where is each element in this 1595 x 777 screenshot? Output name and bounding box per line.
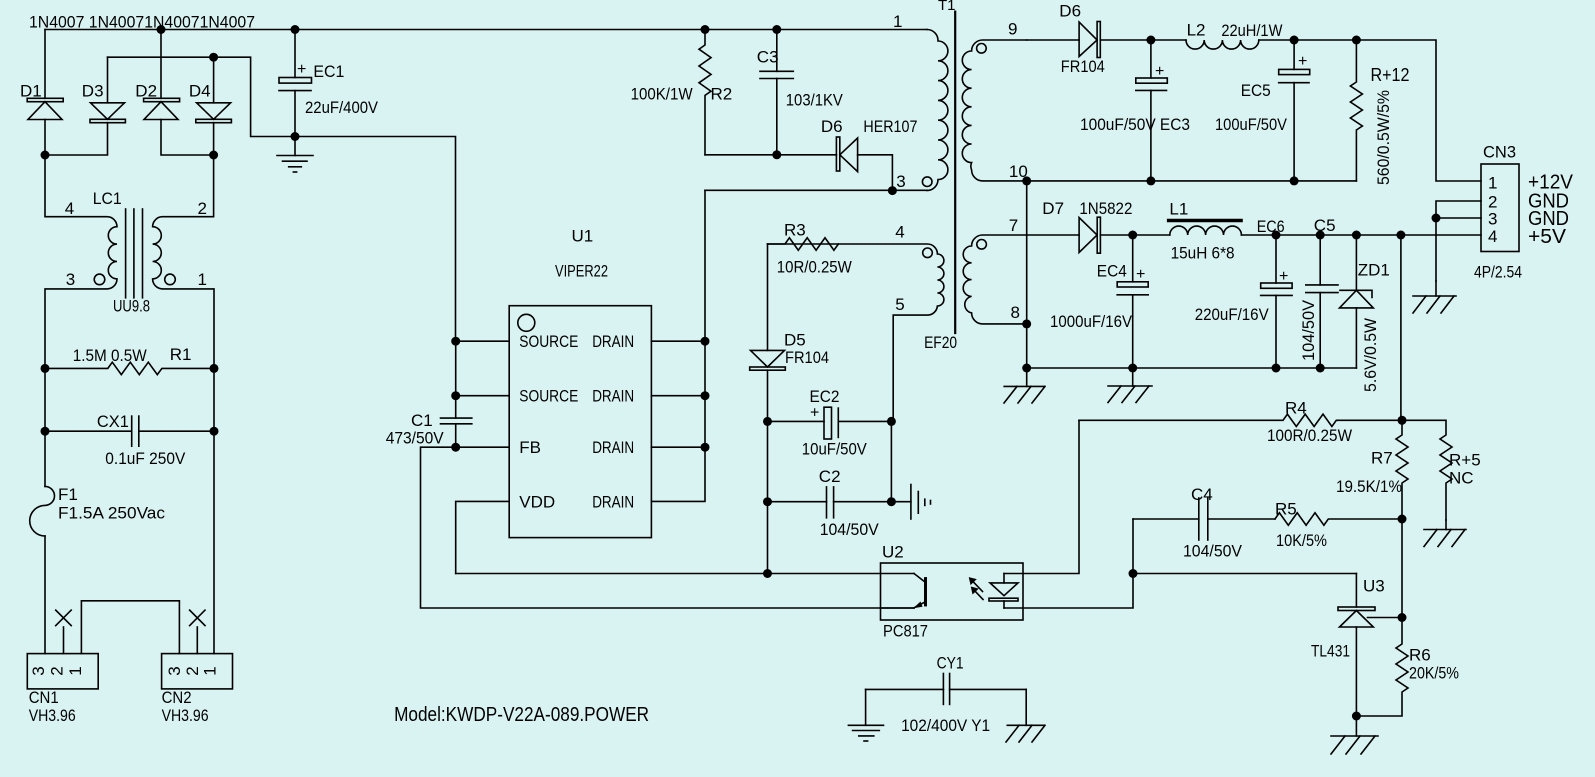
ground (chassis) below R+5 [1424,520,1466,547]
wire VDD net to U2 [456,573,914,575]
wire R7 to REF node [1401,519,1403,618]
svg-text:5.6V/0.5W: 5.6V/0.5W [1361,318,1380,392]
wire snubber [705,154,836,156]
wire SOURCE pin 1 [456,340,510,342]
node phase dot primary [922,177,932,187]
svg-text:104/50V: 104/50V [820,520,880,539]
svg-text:+: + [810,405,819,422]
svg-text:2: 2 [48,666,67,675]
svg-text:EC1: EC1 [313,62,344,81]
svg-text:FR104: FR104 [785,348,829,367]
node U3 ref / R6 top [1398,613,1407,622]
capacitor EC5 [1279,40,1310,181]
node D2 cathode / +rail [157,25,166,34]
capacitor EC4 [1117,235,1148,368]
svg-text:SOURCE: SOURCE [519,332,578,351]
svg-text:2: 2 [198,199,207,218]
svg-text:VH3.96: VH3.96 [29,706,76,725]
node D1-D3 junction / AC in L [41,151,50,160]
svg-text:4: 4 [65,199,74,218]
node sec gnd 1 [1022,364,1031,373]
wire +5V to R4 node [1400,235,1402,420]
node CX1 left [41,427,50,436]
common-mode choke LC1 [45,155,214,368]
svg-text:R3: R3 [784,220,806,239]
svg-text:FR104: FR104 [1061,57,1105,76]
diode D6 FR104 secondary [1079,22,1151,58]
connector CN1 [27,610,98,689]
node R+12 top / +12V [1352,36,1361,45]
wire FB pin [421,447,915,608]
svg-text:100K/1W: 100K/1W [631,85,693,104]
svg-text:3: 3 [896,172,905,191]
svg-text:R5: R5 [1275,500,1297,519]
node EC6 + / +5V [1272,231,1281,240]
svg-text:D6: D6 [1059,2,1081,21]
connector CN2 [162,610,233,689]
capacitor C5 [1306,235,1338,368]
svg-text:R6: R6 [1409,646,1431,665]
svg-text:5: 5 [895,295,904,314]
node T1 pin3 / drain net [888,186,897,195]
svg-text:10K/5%: 10K/5% [1276,531,1327,550]
diode D7 1N5822 [1079,217,1133,253]
svg-text:VH3.96: VH3.96 [162,706,209,725]
svg-text:103/1KV: 103/1KV [786,91,844,110]
capacitor CY1 [866,674,1027,705]
transistor inside U2 [881,574,926,609]
svg-text:8: 8 [1011,303,1020,322]
svg-text:+5V: +5V [1528,226,1567,248]
svg-text:VIPER22: VIPER22 [555,262,608,281]
capacitor EC2 [768,407,892,439]
capacitor CX1 [45,368,214,446]
svg-text:DRAIN: DRAIN [592,492,634,511]
svg-text:EC4: EC4 [1097,262,1127,281]
node DRAIN bus 3 [701,443,710,452]
capacitor C2 [768,421,892,517]
svg-text:D4: D4 [189,81,211,100]
svg-text:1N5822: 1N5822 [1079,199,1132,218]
transformer T1 aux winding 4-5 [768,244,944,421]
wire top rail [45,29,927,31]
svg-text:1000uF/16V: 1000uF/16V [1050,312,1133,331]
transformer T1 core [954,12,956,333]
svg-text:R+12: R+12 [1371,65,1410,85]
svg-text:D3: D3 [82,81,104,100]
svg-text:22uF/400V: 22uF/400V [305,98,379,117]
svg-text:EC5: EC5 [1241,81,1271,100]
resistor R3 [768,238,839,250]
node D4 anode / return rail [209,53,218,62]
svg-text:3: 3 [1488,210,1497,229]
svg-text:22uH/1W: 22uH/1W [1221,21,1282,40]
svg-text:DRAIN: DRAIN [592,332,634,351]
node EC3 + / +12V [1146,36,1155,45]
node EC4 - / sec gnd [1128,364,1137,373]
svg-text:4P/2.54: 4P/2.54 [1474,263,1522,282]
svg-text:TL431: TL431 [1311,642,1350,661]
svg-text:15uH 6*8: 15uH 6*8 [1171,244,1235,263]
svg-text:20K/5%: 20K/5% [1409,664,1459,683]
wire LED cathode to U3 [1133,573,1356,575]
node C5 bottom / sec gnd [1316,364,1325,373]
svg-text:220uF/16V: 220uF/16V [1195,305,1270,324]
svg-text:100uF/50V EC3: 100uF/50V EC3 [1080,115,1190,134]
svg-text:EF20: EF20 [924,333,957,352]
svg-text:104/50V: 104/50V [1183,542,1243,561]
wire rail to L1 [1133,234,1170,236]
transistor emitter arrow U2 [913,602,922,609]
svg-text:R2: R2 [711,85,733,104]
svg-text:CY1: CY1 [937,653,964,672]
diode D3 [45,57,125,155]
svg-text:C4: C4 [1191,485,1213,504]
wire +12V return rail [1027,180,1357,182]
svg-text:U3: U3 [1363,577,1385,596]
node T1 pin8 [1022,319,1031,328]
ground (earth) below EC1 [277,137,313,173]
node EC3 - [1146,176,1155,185]
wire second rail (bridge negative) [108,57,456,341]
LED light arrows U2 [970,578,983,599]
svg-text:10R/0.25W: 10R/0.25W [777,258,852,277]
svg-text:1: 1 [66,666,85,675]
svg-text:4: 4 [895,222,904,241]
svg-text:R+5: R+5 [1449,451,1481,470]
svg-text:C3: C3 [757,48,779,67]
node LED cathode / C4 branch [1129,569,1138,578]
node EC5 - [1290,176,1299,185]
node D2-D4 junction / AC in N [209,151,218,160]
ground (chassis) below CN3 [1413,281,1456,313]
wire DRAIN pins to drain bus [651,340,705,342]
zener ZD1 [1340,235,1374,368]
svg-text:D2: D2 [135,81,157,100]
svg-text:F1: F1 [58,485,78,504]
node R2 top / +rail [701,25,710,34]
svg-text:EC6: EC6 [1257,217,1285,236]
resistor R1 [45,362,214,374]
node FB / C1 bottom [451,443,460,452]
transformer T1 secondary 7-8 [963,235,1079,324]
node EC1 - / source net [291,132,300,141]
capacitor EC3 [1136,40,1168,181]
svg-text:DRAIN: DRAIN [592,387,634,406]
capacitor EC6 [1261,235,1292,368]
svg-text:102/400V Y1: 102/400V Y1 [901,716,990,735]
node R4-R7 junction [1398,416,1407,425]
capacitor C3 [760,30,793,155]
svg-text:CN3: CN3 [1483,143,1516,162]
node EC4 + / +5V raw [1128,231,1137,240]
resistor R4 [1079,414,1402,426]
LED inside U2 [989,574,1018,609]
node U3 anode / R6 bottom [1352,712,1361,721]
svg-text:1: 1 [201,666,220,675]
node R1 right [210,364,219,373]
wire L2 to CN3 pin1 [1259,40,1481,181]
svg-text:1: 1 [893,12,902,31]
node ZD1 cathode / +5V [1352,231,1361,240]
node SOURCE pin2 [451,391,460,400]
svg-text:EC2: EC2 [810,387,840,406]
svg-text:3: 3 [165,666,184,675]
svg-text:1.5M 0.5W: 1.5M 0.5W [73,346,147,365]
ground (bars) right of C2 [891,485,930,520]
resistor R+12 [1350,40,1362,181]
svg-text:R1: R1 [170,345,192,364]
ground (chassis) below pin8 rail [1004,368,1045,403]
svg-text:ZD1: ZD1 [1358,261,1390,280]
resistor R2 [699,30,711,155]
node EC1 + / +rail [291,25,300,34]
svg-text:T1: T1 [938,0,956,14]
diode D1 [27,30,63,156]
connector CN3 box [1481,164,1519,252]
transformer T1 secondary 9-10 [962,40,1026,181]
svg-text:+: + [1298,53,1307,70]
svg-text:C1: C1 [411,411,433,430]
diode D5 FR104 [750,244,786,574]
svg-text:+: + [297,61,306,78]
svg-text:10uF/50V: 10uF/50V [802,439,868,458]
svg-text:CN2: CN2 [162,688,192,707]
svg-text:560/0.5W/5%: 560/0.5W/5% [1374,90,1393,185]
svg-text:100R/0.25W: 100R/0.25W [1267,426,1352,445]
optocoupler U2 box [881,563,1024,620]
svg-text:R4: R4 [1285,399,1307,418]
svg-text:R7: R7 [1371,449,1393,468]
svg-text:Model:KWDP-V22A-089.POWER: Model:KWDP-V22A-089.POWER [394,703,649,726]
svg-text:1: 1 [1488,174,1497,193]
wire CN2 pin1 drop [213,431,215,653]
svg-text:DRAIN: DRAIN [592,438,634,457]
node EC5 + / +12V [1290,36,1299,45]
node CN3 pin3 / gnd drop [1432,214,1441,223]
svg-text:U2: U2 [882,543,904,562]
svg-text:3: 3 [29,666,48,675]
svg-text:4: 4 [1488,227,1497,246]
svg-text:F1.5A 250Vac: F1.5A 250Vac [58,503,165,522]
svg-text:1: 1 [198,270,207,289]
svg-text:HER107: HER107 [863,117,917,136]
svg-text:+: + [1279,268,1288,285]
svg-text:2: 2 [183,666,202,675]
ground (chassis) below EC4 rail [1108,368,1152,403]
wire drain to T1 pin3 [705,189,927,191]
capacitor C1 [441,341,472,447]
resistor R6 [1356,618,1408,717]
node DRAIN bus 1 [701,337,710,346]
svg-text:C2: C2 [819,467,841,486]
resistor R7 [1396,420,1408,519]
node SOURCE pin1 / C1 top [451,337,460,346]
resistor R+5 [1402,420,1452,520]
op-amp U1 box [509,306,651,538]
node C3 top / +rail [772,25,781,34]
svg-text:LC1: LC1 [93,189,122,208]
shunt regulator U3 TL431 [1338,574,1402,717]
wire SOURCE pin 2 [456,395,510,397]
wire +12V rail [1151,39,1186,41]
svg-text:+: + [1136,266,1145,283]
node C3 bottom / snubber [772,150,781,159]
node C5 top / +5V [1316,231,1325,240]
wire CN1 pin1 to CN2 pin3 link [81,601,179,654]
svg-text:SOURCE: SOURCE [519,387,578,406]
svg-text:+: + [1155,63,1164,80]
wire L1 to CN3 pin4 [1241,234,1481,236]
svg-text:19.5K/1%: 19.5K/1% [1336,477,1402,496]
inductor L1 [1169,221,1242,236]
svg-text:PC817: PC817 [883,622,928,641]
svg-text:D1: D1 [20,81,42,100]
svg-text:104/50V: 104/50V [1299,299,1318,361]
pin1 marker circle U1 [518,314,535,331]
svg-text:D6: D6 [821,117,843,136]
node VDD wire / EC2 branch [763,569,772,578]
capacitor C4 [1133,498,1275,540]
svg-text:VDD: VDD [519,492,555,511]
wire CN3 pin2 [1436,201,1481,281]
node EC6 - / sec gnd [1272,364,1281,373]
node DRAIN bus 2 [701,391,710,400]
node EC2 + / D5 cathode [763,417,772,426]
svg-text:0.1uF 250V: 0.1uF 250V [105,449,186,468]
svg-text:473/50V: 473/50V [386,429,445,448]
svg-text:C5: C5 [1314,216,1336,235]
node R1 left [41,364,50,373]
capacitor EC1 [279,30,312,137]
diode D6 HER107 [836,137,892,191]
svg-text:NC: NC [1449,469,1474,488]
svg-text:10: 10 [1009,162,1028,181]
node EC2 - / pin5 net [887,417,896,426]
wire U2 LED cathode [1004,519,1133,608]
node CX1 right [210,427,219,436]
svg-text:D7: D7 [1042,199,1064,218]
node C2 right / aux gnd [887,497,896,506]
svg-text:3: 3 [66,270,75,289]
svg-text:9: 9 [1008,20,1017,39]
inductor L2 [1186,40,1259,49]
ground (earth) left of CY1 [848,689,883,741]
ground (chassis) right of CY1 [1006,689,1045,742]
svg-text:UU9.8: UU9.8 [113,296,150,315]
wire +5V return rail [1027,367,1357,369]
svg-text:L1: L1 [1169,200,1188,219]
fuse F1 [30,431,55,653]
svg-text:CX1: CX1 [97,412,129,431]
svg-text:1N4007 1N40071N40071N4007: 1N4007 1N40071N40071N4007 [29,13,255,32]
resistor R5 [1275,513,1402,525]
node R4 feed / +5V [1396,231,1405,240]
svg-text:FB: FB [519,438,541,457]
svg-text:L2: L2 [1187,21,1206,40]
wire pin9 to D6 [1027,39,1079,41]
wire sec return vertical [1026,181,1028,368]
ground (chassis) below U3 [1331,716,1378,754]
svg-text:CN1: CN1 [29,688,59,707]
transformer T1 primary winding 1-3 [927,30,948,191]
node C2 left / VDD net [763,497,772,506]
wire U2 LED anode to R4 [1004,420,1079,573]
node T1 pin10 / 12V return [1022,176,1031,185]
node R7-R5 junction [1398,515,1407,524]
svg-text:U1: U1 [572,227,594,246]
diode D2 [144,30,214,156]
wire VDD pin [456,501,510,573]
svg-text:D5: D5 [784,331,806,350]
wire CN3 pin3 [1436,217,1481,219]
svg-text:100uF/50V: 100uF/50V [1215,115,1288,134]
svg-text:7: 7 [1009,216,1018,235]
diode D4 [196,57,232,155]
